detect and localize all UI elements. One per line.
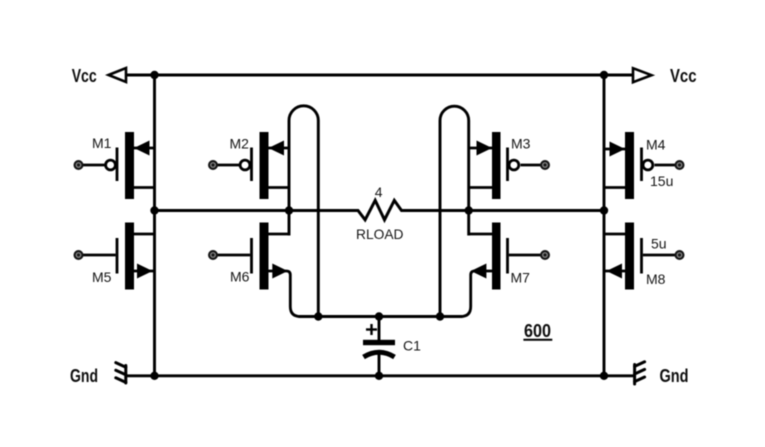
svg-text:RLOAD: RLOAD — [356, 226, 404, 242]
svg-text:Gnd: Gnd — [660, 366, 689, 386]
svg-text:M5: M5 — [92, 269, 112, 285]
svg-text:Vcc: Vcc — [670, 66, 697, 86]
svg-text:M3: M3 — [511, 136, 531, 152]
svg-text:M1: M1 — [92, 135, 112, 151]
svg-text:Vcc: Vcc — [72, 66, 97, 86]
svg-text:5u: 5u — [651, 236, 667, 252]
svg-text:M8: M8 — [646, 271, 666, 287]
svg-text:4: 4 — [375, 184, 383, 200]
svg-text:M7: M7 — [511, 270, 531, 286]
svg-text:M2: M2 — [230, 136, 250, 152]
svg-text:600: 600 — [524, 321, 551, 341]
svg-text:Gnd: Gnd — [70, 366, 98, 386]
svg-text:M4: M4 — [646, 137, 666, 153]
svg-text:C1: C1 — [403, 338, 421, 354]
svg-text:M6: M6 — [230, 269, 250, 285]
svg-text:15u: 15u — [650, 173, 673, 189]
